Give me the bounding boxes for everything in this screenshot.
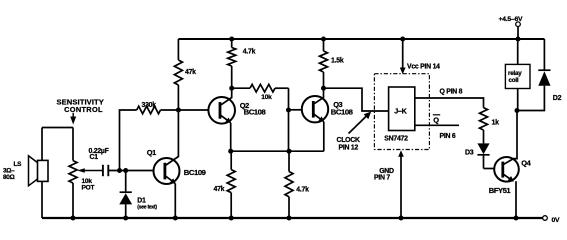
GND pin 7 wire	[398, 150, 404, 157]
svg-text:Vcc PIN 14: Vcc PIN 14	[407, 63, 440, 70]
svg-text:POT: POT	[82, 184, 95, 191]
junction rail-1.5k	[321, 37, 326, 42]
J-K box SN7472	[389, 87, 415, 131]
wire Q4 emitter to rail	[515, 181, 517, 218]
svg-text:BC109: BC109	[184, 168, 206, 177]
svg-text:1.5k: 1.5k	[331, 58, 344, 65]
svg-text:PIN 7: PIN 7	[374, 174, 390, 181]
svg-text:0V: 0V	[552, 217, 561, 224]
node C1-D1 junction	[123, 168, 128, 173]
wire Q3 emitter	[323, 122, 325, 152]
svg-text:SN7472: SN7472	[384, 135, 408, 142]
diode D3	[477, 143, 489, 154]
wire Q3 collector	[314, 88, 323, 103]
junction Q1 emitter-rail	[173, 216, 178, 221]
junction supply-rail	[516, 37, 521, 42]
node Q1 collector / Q2 base	[176, 108, 181, 113]
svg-text:Q: Q	[433, 116, 439, 125]
svg-text:C1: C1	[90, 154, 99, 161]
svg-text:PIN 6: PIN 6	[440, 133, 456, 140]
wire left vertical speaker top	[41, 128, 43, 161]
junction GND-rail	[399, 216, 404, 221]
svg-text:BC108: BC108	[331, 107, 354, 116]
0V bottom rail	[42, 217, 543, 219]
resistor 47k collector Q1	[177, 39, 179, 60]
svg-text:80Ω: 80Ω	[3, 174, 15, 181]
capacitor C1	[102, 165, 104, 176]
transistor Q3 BC108	[302, 96, 328, 122]
svg-text:BFY51: BFY51	[489, 186, 512, 195]
svg-text:Q PIN 8: Q PIN 8	[440, 88, 463, 95]
resistor 330k	[137, 106, 161, 114]
junction 47k-rail	[229, 216, 234, 221]
svg-text:47k: 47k	[214, 186, 225, 193]
wire pot bottom to 0V rail	[72, 183, 74, 218]
svg-text:Q1: Q1	[147, 148, 156, 157]
svg-text:BC108: BC108	[244, 107, 267, 116]
svg-text:4.7k: 4.7k	[243, 49, 256, 56]
node Q3 collector	[321, 86, 326, 91]
resistor 4.7k collector Q2	[231, 39, 233, 48]
wire 10k to Q3 base node	[288, 88, 290, 110]
wire 330k to base node	[161, 109, 179, 111]
svg-text:Q4: Q4	[521, 158, 531, 167]
clock arrow	[349, 115, 368, 134]
wire speaker bottom to 0V rail	[41, 181, 43, 218]
dashed IC boundary	[374, 74, 429, 150]
wire Qbar output	[415, 124, 459, 126]
svg-text:330k: 330k	[142, 102, 157, 109]
wire Q2 base	[178, 109, 208, 111]
wire top-left loop corner to pot	[42, 127, 73, 129]
loudspeaker LS	[29, 156, 39, 186]
wire Q1 emitter to rail	[174, 184, 176, 219]
wire relay top	[517, 39, 519, 64]
wire pot top	[72, 128, 74, 161]
node relay-D2-collector	[515, 108, 520, 113]
svg-text:CONTROL: CONTROL	[64, 105, 103, 114]
resistor 10k coupling	[232, 87, 250, 89]
svg-text:4.7k: 4.7k	[296, 187, 309, 194]
potentiometer 10k POT	[69, 161, 77, 183]
sensitivity control arrow	[72, 113, 74, 118]
wire 1k to D3	[483, 130, 485, 144]
svg-text:(see text): (see text)	[137, 205, 157, 211]
svg-text:J–K: J–K	[394, 107, 407, 116]
svg-text:D3: D3	[465, 149, 474, 156]
wire Q3 base node down	[288, 110, 290, 151]
diode D1	[125, 171, 127, 194]
svg-text:D1: D1	[137, 197, 146, 204]
junction D1-rail	[123, 216, 128, 221]
resistor 1k	[480, 108, 488, 130]
wire Q3 base	[289, 109, 303, 111]
wire clock from collector	[324, 88, 389, 111]
terminal 0V	[543, 216, 548, 221]
wire C1 to Q1 base	[108, 170, 153, 172]
svg-text:1k: 1k	[492, 120, 500, 127]
svg-text:LS: LS	[14, 161, 23, 168]
node Q2 collector	[229, 86, 234, 91]
junction rail-4.7k	[229, 37, 234, 42]
wire relay bottom	[517, 89, 519, 111]
wire Q4 collector	[503, 111, 517, 165]
wire Q2 emitter	[230, 123, 232, 151]
junction Q2 emitter node	[228, 149, 233, 154]
junction Q4 emitter-rail	[514, 216, 519, 221]
transistor Q4 BFY51	[494, 157, 519, 182]
node C1-330k junction	[117, 168, 122, 173]
svg-text:coil: coil	[509, 77, 519, 84]
junction coupling-4.7k	[287, 149, 292, 154]
junction 4.7k-rail	[287, 216, 292, 221]
transistor Q1 BC109	[154, 158, 180, 184]
svg-text:47k: 47k	[185, 69, 196, 76]
svg-text:D2: D2	[553, 95, 562, 102]
junction pot-rail	[71, 216, 76, 221]
svg-text:CLOCK: CLOCK	[337, 137, 361, 144]
diode D2	[543, 39, 545, 70]
wire Q output	[415, 98, 484, 108]
wire Q1 collector	[165, 110, 178, 166]
resistor 47k emitter	[230, 151, 232, 169]
top supply rail	[178, 38, 544, 40]
resistor 1.5k	[323, 39, 325, 51]
transistor Q2 BC108	[208, 97, 235, 124]
svg-text:10k: 10k	[261, 94, 272, 101]
wire emitter coupling	[231, 150, 324, 152]
svg-text:PIN 12: PIN 12	[339, 145, 359, 152]
wire 330k feedback riser	[120, 110, 137, 171]
node Q3 base	[286, 108, 291, 113]
resistor 4.7k lower	[288, 151, 290, 171]
relay coil box	[505, 64, 530, 88]
pot wiper arrow	[77, 168, 85, 173]
wire Q4 base	[484, 168, 495, 170]
wire Q2 collector	[221, 88, 232, 105]
Vcc pin 14 wire	[400, 37, 405, 42]
